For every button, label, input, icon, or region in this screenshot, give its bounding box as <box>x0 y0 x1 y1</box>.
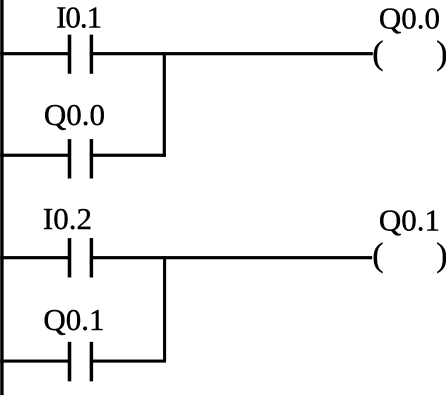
contact I0.1 <box>68 35 93 74</box>
contact Q0.1 (seal-in) <box>68 342 93 381</box>
wire rung2 rail to contact I0.2 <box>0 256 68 259</box>
svg-text:): ) <box>436 237 446 274</box>
label I0.1 <box>56 0 101 34</box>
contact I0.2 <box>68 238 93 277</box>
svg-text:I0.1: I0.1 <box>56 0 101 34</box>
label Q0.0 (contact) <box>44 97 105 132</box>
wire rung1 rail to contact I0.1 <box>0 52 68 55</box>
svg-text:Q0.1: Q0.1 <box>379 203 440 238</box>
svg-text:(: ( <box>372 237 383 274</box>
label Q0.1 (contact) <box>43 302 104 337</box>
label Q0.0 (coil) <box>379 1 440 36</box>
svg-text:Q0.0: Q0.0 <box>44 97 105 132</box>
wire branch2 contact to junction <box>93 360 166 363</box>
label I0.2 <box>43 201 92 236</box>
left power rail <box>0 0 3 395</box>
branch1 vertical wire <box>163 52 166 157</box>
svg-text:): ) <box>436 35 446 72</box>
svg-text:(: ( <box>372 35 383 72</box>
coil Q0.1 <box>372 237 446 274</box>
contact Q0.0 (seal-in) <box>68 139 93 178</box>
wire branch1 rail to contact Q0.0 <box>0 154 68 157</box>
svg-text:Q0.1: Q0.1 <box>43 302 104 337</box>
branch2 vertical wire <box>163 256 166 362</box>
wire rung2 contact to coil <box>93 256 372 259</box>
wire branch2 rail to contact Q0.1 <box>0 360 68 363</box>
svg-text:Q0.0: Q0.0 <box>379 1 440 36</box>
label Q0.1 (coil) <box>379 203 440 238</box>
wire rung1 contact to coil <box>93 52 373 55</box>
coil Q0.0 <box>372 35 446 72</box>
svg-text:I0.2: I0.2 <box>43 201 92 236</box>
wire branch1 contact to junction <box>93 154 166 157</box>
